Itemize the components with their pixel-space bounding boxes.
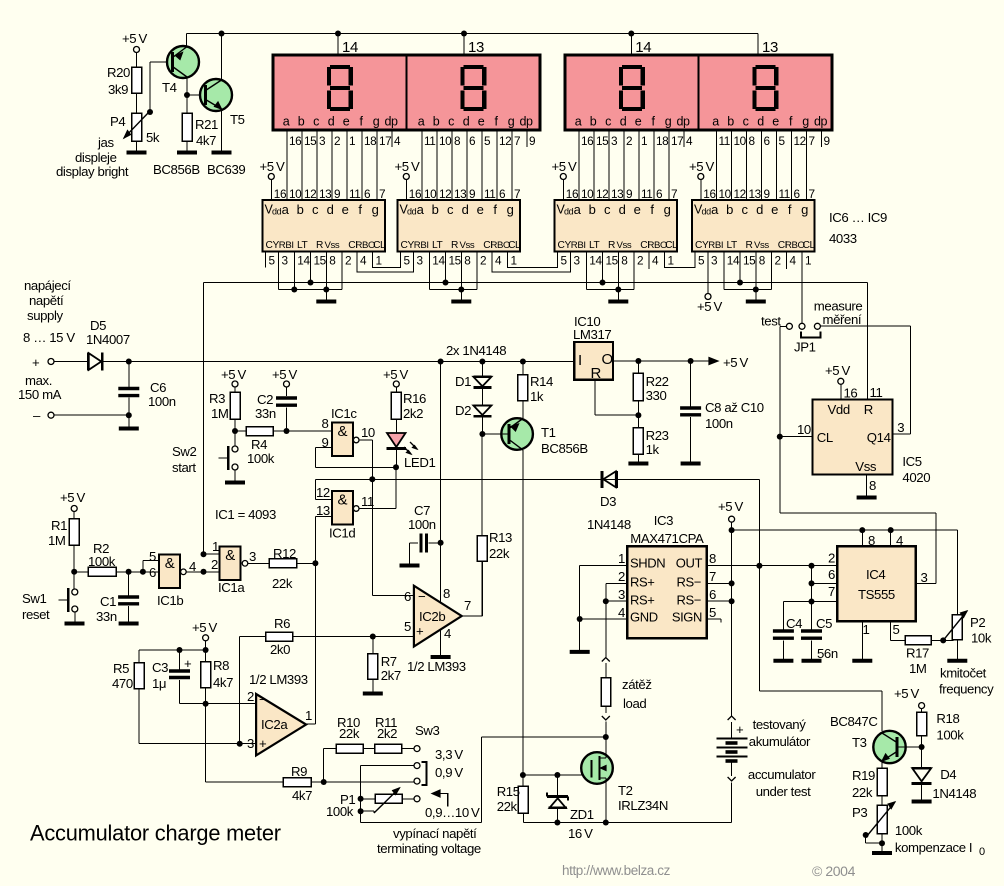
wire R20 to P4 (136, 93, 138, 113)
svg-text:terminating voltage: terminating voltage (377, 841, 481, 856)
IC8 top pin numbers (581, 187, 677, 201)
resistor R11 2k2 (375, 715, 415, 753)
wire T2 source to bottom line (603, 784, 609, 826)
svg-text:3: 3 (921, 570, 928, 585)
svg-text:5: 5 (893, 622, 900, 637)
svg-text:+5 V: +5 V (383, 367, 408, 382)
svg-text:+5 V: +5 V (272, 367, 297, 382)
gate IC1c (322, 406, 375, 456)
svg-text:16: 16 (409, 187, 422, 201)
wire T3 emitter to R19 (881, 761, 883, 768)
svg-text:33n: 33n (255, 406, 276, 421)
svg-text:3: 3 (249, 549, 256, 564)
potentiometer P1 100k (326, 788, 414, 819)
svg-text:R6: R6 (274, 616, 290, 631)
svg-text:1: 1 (805, 254, 811, 268)
reset bus right turn down to IC5 pin11 (868, 283, 883, 401)
reset bus R line (204, 282, 868, 284)
svg-text:R4: R4 (251, 437, 267, 452)
counter IC IC8 4033 box (555, 200, 679, 252)
resistor R16 2k2 (391, 391, 426, 433)
svg-text:R13: R13 (489, 530, 512, 545)
node display1 pin14 on top rail (335, 31, 341, 56)
svg-text:−: − (259, 692, 267, 707)
svg-text:2: 2 (334, 134, 340, 148)
svg-text:supply: supply (27, 308, 64, 323)
svg-text:2k7: 2k7 (381, 668, 401, 683)
IC9 top pin numbers (719, 187, 815, 201)
TS555 pin6 pin7 ties (783, 566, 837, 605)
load resistor zatez (601, 663, 651, 713)
wire IC1d pin13 loop to R12 node (315, 517, 332, 564)
svg-text:11: 11 (719, 134, 730, 148)
svg-text:IC1a: IC1a (218, 580, 245, 595)
svg-text:8: 8 (464, 254, 471, 268)
svg-text:1μ: 1μ (152, 676, 166, 691)
reset bus left turn down (203, 283, 205, 555)
svg-text:frequency: frequency (939, 682, 994, 697)
minus input terminal (33, 408, 129, 423)
svg-text:Vss: Vss (460, 240, 475, 251)
svg-text:c: c (448, 115, 454, 129)
svg-text:17: 17 (379, 134, 391, 148)
svg-text:BC639: BC639 (207, 162, 245, 177)
power +5V terminal for R20 (122, 31, 147, 67)
TS555 pin5 and resistor R17 1M (891, 621, 954, 676)
diode D4 1N4148 (912, 747, 977, 802)
svg-text:http://www.belza.cz: http://www.belza.cz (562, 863, 671, 878)
counter IC5 4020 (813, 400, 931, 486)
svg-text:CL: CL (817, 430, 833, 445)
resistor R21 4k7 (182, 95, 218, 148)
svg-text:100n: 100n (705, 416, 733, 431)
clock link IC6-CL to IC7-CY (373, 252, 401, 268)
svg-text:+5 V: +5 V (395, 159, 420, 174)
svg-text:100k: 100k (88, 554, 116, 569)
svg-text:12: 12 (316, 485, 330, 500)
supply rail to LM317 input (103, 359, 574, 365)
svg-text:1N4148: 1N4148 (932, 786, 976, 801)
svg-text:LT: LT (432, 240, 443, 251)
7-segment digit 1 (329, 67, 351, 109)
IC8 bottom pin numbers (561, 254, 674, 268)
wires digit 2 segments to IC (422, 130, 527, 200)
wire R1 to node (71, 545, 77, 575)
resistor R6 2k0 (240, 616, 414, 657)
svg-text:0: 0 (979, 846, 985, 858)
svg-text:C4: C4 (786, 616, 802, 631)
svg-text:6: 6 (364, 187, 371, 201)
svg-text:16: 16 (566, 187, 579, 201)
svg-text:1: 1 (212, 539, 219, 554)
svg-text:6: 6 (656, 187, 663, 201)
resistor R23 1k (628, 428, 668, 464)
svg-text:15: 15 (606, 254, 619, 268)
IC9 reset pin to bus (737, 252, 743, 286)
svg-text:R23: R23 (646, 428, 669, 443)
svg-text:R12: R12 (273, 546, 296, 561)
svg-text:b: b (432, 202, 439, 217)
svg-text:R7: R7 (381, 654, 397, 669)
svg-text:c: c (743, 115, 749, 129)
labels kmitocet frequency (939, 666, 994, 697)
svg-text:6: 6 (709, 587, 716, 602)
svg-text:IRLZ34N: IRLZ34N (618, 798, 668, 813)
switch Sw1 reset (22, 572, 85, 624)
svg-text:15: 15 (449, 254, 462, 268)
svg-text:8: 8 (621, 254, 628, 268)
IC6 bottom pin numbers (269, 254, 382, 268)
svg-text:R9: R9 (291, 764, 307, 779)
gate IC1d (316, 485, 374, 541)
wire pin3 line (139, 741, 256, 747)
svg-text:LT: LT (297, 240, 308, 251)
svg-text:zátěž: zátěž (622, 677, 652, 692)
svg-text:16: 16 (581, 134, 594, 148)
svg-text:8: 8 (322, 416, 329, 431)
svg-text:g: g (507, 202, 514, 217)
svg-text:11: 11 (484, 187, 495, 201)
svg-text:6: 6 (469, 134, 476, 148)
svg-text:IC2a: IC2a (261, 717, 288, 732)
svg-text:3: 3 (897, 420, 904, 435)
wire T5 emitter to ground (212, 109, 232, 153)
svg-text:16 V: 16 V (568, 826, 593, 841)
T2 gate line (523, 774, 591, 776)
capacitor C2 33n (255, 392, 297, 431)
blanking link IC7-RBO to IC8-RBI (492, 252, 571, 273)
svg-text:CY: CY (266, 240, 280, 251)
svg-text:Vss: Vss (754, 240, 769, 251)
svg-text:12: 12 (596, 187, 608, 201)
svg-text:CL: CL (803, 240, 816, 251)
svg-text:+5 V: +5 V (122, 31, 147, 46)
switch Sw3 terminals (414, 723, 463, 802)
load connector chevron top (602, 658, 610, 662)
svg-text:+5 V: +5 V (718, 499, 743, 514)
svg-text:b: b (727, 115, 734, 129)
resistor R4 100k (235, 427, 332, 467)
svg-text:test: test (761, 314, 781, 329)
svg-text:5: 5 (149, 549, 156, 564)
svg-text:7: 7 (709, 569, 716, 584)
svg-text:Sw1: Sw1 (22, 591, 47, 606)
labels max 150 mA (18, 373, 62, 402)
svg-text:9: 9 (469, 187, 475, 201)
svg-text:R20: R20 (107, 65, 130, 80)
LM317 adjust wire (595, 380, 639, 416)
svg-text:e: e (477, 202, 484, 217)
svg-text:7: 7 (514, 134, 520, 148)
svg-text:LED1: LED1 (404, 455, 435, 470)
svg-text:LT: LT (589, 240, 600, 251)
node T5 collector on top rail (219, 31, 225, 37)
svg-text:7: 7 (671, 187, 677, 201)
timer IC4 TS555 (828, 546, 928, 637)
svg-text:RS−: RS− (677, 593, 701, 608)
+5V terminal on IC9 RBI (697, 252, 722, 315)
svg-text:5: 5 (561, 254, 568, 268)
svg-text:GND: GND (630, 610, 658, 625)
svg-text:5: 5 (779, 134, 786, 148)
opamp IC2b half LM393 (404, 586, 471, 674)
svg-text:C5: C5 (816, 616, 832, 631)
svg-text:0,9 V: 0,9 V (435, 765, 463, 780)
svg-text:1: 1 (376, 254, 382, 268)
svg-text:I: I (578, 352, 582, 369)
svg-text:9: 9 (824, 134, 830, 148)
svg-text:e: e (772, 115, 779, 129)
svg-text:1: 1 (511, 254, 517, 268)
svg-text:C2: C2 (257, 392, 273, 407)
IC2b output pin7 to R13 (462, 561, 483, 616)
diode D1 (455, 359, 491, 390)
diode D2 (455, 388, 491, 437)
svg-text:+5 V: +5 V (260, 159, 285, 174)
svg-text:10: 10 (424, 187, 437, 201)
svg-text:13: 13 (762, 39, 778, 56)
svg-text:load: load (623, 696, 646, 711)
svg-text:BC856B: BC856B (153, 162, 200, 177)
svg-text:10: 10 (581, 187, 594, 201)
svg-text:dd: dd (702, 207, 712, 217)
svg-text:b: b (726, 202, 733, 217)
svg-text:16: 16 (703, 187, 716, 201)
arrow 0,9-10V (425, 790, 480, 820)
IC6 carry stub (265, 252, 267, 268)
wires digit 3 segments to IC (579, 130, 684, 200)
capacitor C8 az C10 100n (680, 361, 764, 464)
svg-text:a: a (711, 202, 719, 217)
svg-text:Sw2: Sw2 (172, 444, 197, 459)
svg-text:P2: P2 (970, 615, 985, 630)
svg-text:11: 11 (641, 187, 652, 201)
display module DA (digits 1-2) (273, 55, 540, 130)
svg-text:d: d (619, 202, 626, 217)
svg-text:4: 4 (618, 605, 625, 620)
svg-text:RS−: RS− (677, 575, 701, 590)
svg-text:10: 10 (361, 425, 375, 440)
svg-text:start: start (172, 460, 196, 475)
svg-text:9: 9 (529, 134, 535, 148)
svg-text:CL: CL (665, 240, 678, 251)
svg-text:R: R (608, 240, 615, 251)
wire supply to LM393 pin8 (438, 359, 444, 604)
svg-text:napájecí: napájecí (24, 278, 71, 293)
svg-text:5: 5 (404, 254, 411, 268)
svg-text:OUT: OUT (676, 556, 703, 571)
IC5 Vss pin8 ground (857, 475, 877, 498)
top rail to display pins 14/13 (187, 34, 759, 56)
+5V terminal for R1 (60, 490, 85, 519)
display digit 1 pin numbers (289, 134, 401, 148)
IC9 ground segment (724, 252, 772, 302)
svg-text:1M: 1M (211, 406, 229, 421)
svg-text:g: g (508, 115, 515, 129)
transistor T4 BC856B (162, 46, 199, 95)
svg-text:8: 8 (443, 586, 450, 601)
wire R8 node to IC2a pin2 (206, 703, 257, 705)
svg-text:Sw3: Sw3 (415, 723, 440, 738)
svg-text:D1: D1 (455, 374, 471, 389)
+5V terminal for IC9 Vdd (689, 159, 716, 201)
resistor R2 100k (74, 541, 159, 576)
svg-text:14: 14 (342, 39, 358, 56)
svg-text:e: e (478, 115, 485, 129)
svg-text:CY: CY (558, 240, 572, 251)
svg-text:+: + (259, 736, 267, 751)
svg-text:T2: T2 (618, 783, 633, 798)
wire IC1b out to IC1a inputs (186, 551, 219, 575)
svg-text:15: 15 (596, 134, 609, 148)
svg-text:ZD1: ZD1 (570, 807, 594, 822)
svg-text:R21: R21 (195, 117, 218, 132)
svg-text:dd: dd (272, 207, 282, 217)
7-segment digit 4 (754, 67, 776, 109)
svg-text:c: c (604, 202, 611, 217)
display top pin labels 14 13 (342, 39, 778, 56)
svg-text:1/2 LM393: 1/2 LM393 (249, 672, 308, 687)
svg-text:b: b (433, 115, 440, 129)
svg-text:IC1c: IC1c (331, 406, 357, 421)
+5V terminal for R16 (383, 367, 408, 392)
clock link IC8-CL to IC9-CY (665, 252, 696, 268)
svg-text:R1: R1 (51, 518, 67, 533)
svg-text:c: c (447, 202, 454, 217)
svg-text:reset: reset (22, 607, 50, 622)
svg-text:6: 6 (764, 134, 771, 148)
svg-text:C3: C3 (152, 660, 168, 675)
svg-text:7: 7 (514, 187, 520, 201)
svg-text:Vss: Vss (855, 459, 877, 474)
IC7 top pin numbers (424, 187, 520, 201)
svg-text:1/2 LM393: 1/2 LM393 (407, 659, 466, 674)
switch Sw2 start (172, 431, 245, 483)
svg-text:5: 5 (484, 134, 491, 148)
svg-text:CL: CL (508, 240, 521, 251)
supply line to TS555 pins 8 4 (732, 527, 958, 548)
svg-text:13: 13 (468, 39, 484, 56)
svg-text:d: d (327, 202, 334, 217)
resistor R22 330 (633, 361, 668, 428)
LM317 output wire to +5V arrow (613, 355, 748, 370)
svg-text:13: 13 (319, 187, 332, 201)
svg-text:17: 17 (671, 134, 683, 148)
svg-text:5: 5 (404, 619, 411, 634)
svg-text:100n: 100n (408, 517, 436, 532)
label IC6 ... IC9 4033 (829, 210, 887, 246)
svg-text:9: 9 (334, 187, 340, 201)
svg-text:4: 4 (394, 134, 401, 148)
svg-text:d: d (328, 115, 335, 129)
svg-text:IC5: IC5 (902, 454, 921, 469)
svg-text:22k: 22k (852, 785, 873, 800)
svg-text:BC847C: BC847C (830, 714, 878, 729)
svg-text:4: 4 (686, 134, 693, 148)
svg-text:10: 10 (797, 422, 811, 437)
battery under test (717, 712, 748, 823)
svg-text:3k9: 3k9 (108, 82, 128, 97)
svg-text:+5 V: +5 V (192, 620, 217, 635)
svg-text:a: a (574, 202, 582, 217)
svg-text:12: 12 (304, 187, 316, 201)
svg-text:4020: 4020 (902, 470, 930, 485)
wire load to T2 drain (603, 722, 609, 741)
svg-text:6: 6 (404, 589, 411, 604)
svg-text:1M: 1M (48, 533, 66, 548)
svg-text:dp: dp (814, 115, 828, 129)
wire P4 wiper to T4 base (150, 62, 171, 112)
svg-text:−: − (418, 589, 426, 604)
svg-text:15: 15 (304, 134, 317, 148)
load connector chevron bottom (602, 716, 610, 720)
svg-text:C1: C1 (100, 594, 116, 609)
svg-text:RBI: RBI (279, 240, 294, 251)
wire 3,3V tap to P1 left (358, 766, 414, 823)
svg-text:Vss: Vss (617, 240, 632, 251)
svg-text:3: 3 (319, 134, 326, 148)
segment letters a-dp digit 2 (418, 115, 533, 129)
MAX471 RS+ wires to load (603, 583, 627, 657)
resistor R10 22k (324, 715, 375, 782)
capacitor C5 56n (801, 602, 838, 662)
svg-text:1: 1 (863, 622, 870, 637)
svg-text:10: 10 (719, 187, 732, 201)
diode D3 1N4148 (587, 471, 631, 532)
svg-text:e: e (771, 202, 778, 217)
svg-text:0,9…10 V: 0,9…10 V (425, 805, 480, 820)
svg-text:LT: LT (727, 240, 738, 251)
IC7 ground segment (429, 252, 477, 302)
svg-text:7: 7 (809, 187, 815, 201)
svg-text:R14: R14 (530, 374, 553, 389)
svg-text:T5: T5 (230, 112, 245, 127)
svg-text:4: 4 (360, 254, 367, 268)
svg-text:14: 14 (589, 254, 602, 268)
svg-text:akumulátor: akumulátor (749, 734, 811, 749)
svg-text:100k: 100k (895, 823, 923, 838)
svg-text:5: 5 (698, 254, 705, 268)
resistor R1 1M (48, 518, 79, 548)
transistor T3 BC847C (830, 714, 922, 763)
svg-text:IC2b: IC2b (419, 609, 445, 624)
svg-text:470: 470 (112, 676, 133, 691)
svg-text:a: a (417, 202, 425, 217)
labels vypinaci napeti terminating voltage (377, 826, 481, 856)
+5V terminal for IC8 Vdd (552, 159, 579, 201)
svg-text:R18: R18 (936, 711, 959, 726)
resistor R12 22k (248, 546, 319, 591)
svg-text:R17: R17 (906, 646, 929, 661)
TS555 pin1 ground (852, 621, 872, 661)
svg-text:100k: 100k (326, 804, 354, 819)
svg-text:b: b (298, 115, 305, 129)
svg-text:C7: C7 (414, 503, 430, 518)
svg-text:16: 16 (274, 187, 287, 201)
svg-text:14: 14 (432, 254, 445, 268)
svg-text:5k: 5k (146, 130, 160, 145)
IC6 top pin numbers (289, 187, 385, 201)
svg-text:330: 330 (646, 388, 667, 403)
svg-text:10: 10 (289, 187, 302, 201)
svg-text:g: g (665, 115, 672, 129)
svg-text:Q14: Q14 (867, 430, 891, 445)
svg-text:2k2: 2k2 (377, 726, 397, 741)
svg-text:c: c (312, 202, 319, 217)
svg-text:b: b (590, 115, 597, 129)
svg-text:1M: 1M (909, 661, 927, 676)
svg-text:dp: dp (676, 115, 690, 129)
